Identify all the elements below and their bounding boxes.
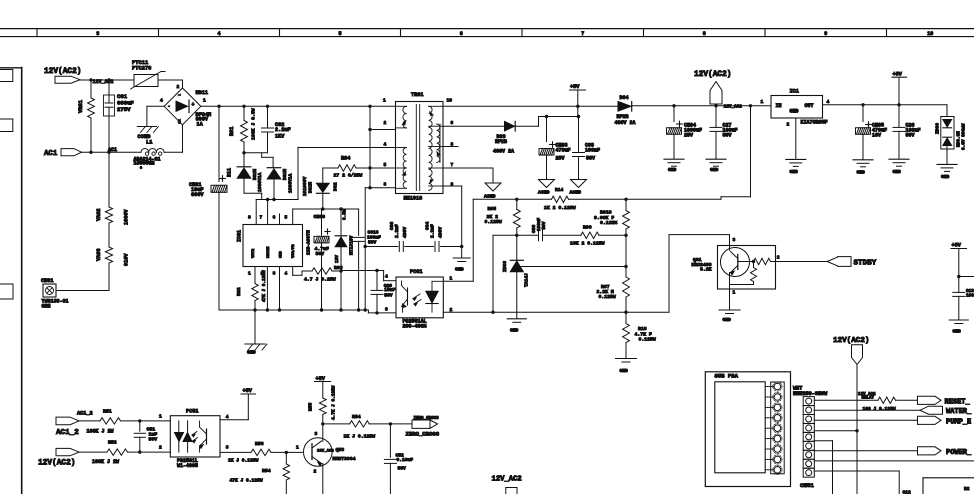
svg-text:VR01: VR01: [78, 100, 84, 113]
svg-text:D04: D04: [620, 95, 629, 101]
svg-text:DS1M: DS1M: [308, 182, 314, 193]
svg-text:50V: 50V: [368, 240, 377, 246]
svg-text:1600V: 1600V: [124, 209, 130, 225]
svg-text:2: 2: [314, 469, 317, 475]
svg-text:0.125W: 0.125W: [485, 219, 502, 225]
svg-text:1: 1: [450, 276, 453, 282]
svg-text:100nF: 100nF: [585, 148, 600, 154]
svg-text:470uF: 470uF: [556, 148, 571, 154]
svg-text:3: 3: [385, 307, 388, 313]
svg-text:6: 6: [273, 215, 276, 221]
svg-text:6.8V 800mW: 6.8V 800mW: [962, 123, 967, 150]
svg-text:2: 2: [159, 445, 162, 451]
svg-text:VA02: VA02: [96, 209, 102, 221]
svg-text:+5V: +5V: [243, 388, 253, 394]
svg-text:VA03: VA03: [96, 249, 102, 261]
svg-text:100 J 0.125W: 100 J 0.125W: [863, 406, 896, 412]
svg-text:8: 8: [248, 215, 251, 221]
svg-text:12V_AC2: 12V_AC2: [492, 476, 522, 484]
svg-text:9: 9: [451, 120, 454, 126]
svg-text:+5V: +5V: [952, 243, 962, 249]
svg-text:50V: 50V: [398, 466, 407, 472]
svg-text:AC1: AC1: [44, 150, 58, 158]
svg-text:C12: C12: [903, 490, 912, 494]
svg-text:2.2nF: 2.2nF: [430, 224, 436, 238]
svg-text:2: 2: [177, 84, 180, 90]
svg-text:GND: GND: [620, 368, 629, 374]
svg-text:5: 5: [285, 215, 288, 221]
svg-text:AGND: AGND: [484, 194, 496, 200]
svg-text:200-400%: 200-400%: [403, 324, 427, 330]
svg-text:0.16uF: 0.16uF: [397, 457, 414, 463]
svg-text:AC1_2: AC1_2: [77, 411, 93, 417]
svg-text:2: 2: [450, 307, 453, 313]
svg-text:10000uH: 10000uH: [134, 161, 155, 167]
svg-text:12V(AC2): 12V(AC2): [38, 460, 75, 468]
svg-text:12V_AC2: 12V_AC2: [93, 79, 114, 85]
svg-text:27 2 0/25W: 27 2 0/25W: [334, 173, 363, 179]
svg-text:47K J 0.125W: 47K J 0.125W: [262, 270, 267, 302]
svg-text:13V: 13V: [335, 255, 340, 263]
svg-text:DRAIN: DRAIN: [267, 246, 271, 258]
svg-text:AGND: AGND: [570, 190, 582, 196]
svg-text:R01: R01: [229, 127, 235, 136]
svg-text:GND: GND: [723, 317, 732, 323]
svg-text:R04: R04: [341, 156, 350, 162]
svg-text:GND: GND: [510, 328, 519, 334]
svg-text:TA14J: TA14J: [524, 273, 530, 287]
svg-text:1: 1: [159, 414, 162, 420]
svg-text:1: 1: [296, 445, 299, 451]
svg-text:600V: 600V: [191, 192, 204, 198]
svg-text:RESET_: RESET_: [945, 399, 971, 407]
svg-text:ZD03: ZD03: [502, 261, 508, 272]
svg-text:9: 9: [824, 31, 827, 37]
svg-text:GND: GND: [953, 329, 962, 335]
svg-text:Q53: Q53: [336, 447, 345, 453]
svg-text:9.09K F: 9.09K F: [594, 215, 614, 221]
svg-text:0.125W: 0.125W: [639, 337, 656, 343]
svg-text:3: 3: [384, 182, 387, 188]
svg-text:1: 1: [383, 98, 386, 104]
svg-text:100K J 2W: 100K J 2W: [87, 429, 114, 435]
svg-text:R55: R55: [308, 402, 314, 411]
svg-text:12V(AC2): 12V(AC2): [694, 71, 731, 79]
svg-text:0.5W: 0.5W: [343, 209, 348, 220]
svg-text:DS1M: DS1M: [282, 169, 288, 180]
svg-text:21B-A607M: 21B-A607M: [306, 230, 312, 255]
svg-text:R06: R06: [583, 225, 592, 231]
svg-text:D11: D11: [227, 168, 233, 177]
svg-text:SUB PBA: SUB PBA: [715, 373, 739, 380]
svg-text:AC1_2: AC1_2: [56, 429, 79, 437]
svg-text:R02: R02: [236, 287, 242, 296]
svg-text:50V: 50V: [723, 133, 732, 139]
svg-text:12V_AC2: 12V_AC2: [317, 450, 334, 454]
svg-text:~: ~: [178, 94, 181, 99]
svg-text:CN01: CN01: [41, 278, 53, 284]
svg-text:3: 3: [178, 119, 181, 125]
svg-text:L1: L1: [146, 140, 152, 146]
svg-text:400V 2A: 400V 2A: [615, 120, 636, 126]
svg-text:MMBT3904: MMBT3904: [333, 456, 356, 462]
svg-text:400V 2A: 400V 2A: [493, 149, 514, 155]
svg-text:50V: 50V: [542, 221, 547, 229]
svg-text:100K J 0.5W: 100K J 0.5W: [251, 108, 257, 140]
svg-text:1KV: 1KV: [275, 134, 285, 140]
svg-text:+5V: +5V: [570, 84, 580, 90]
svg-text:STDBY: STDBY: [854, 260, 877, 268]
svg-text:1: 1: [203, 98, 206, 104]
svg-text:4: 4: [226, 414, 229, 420]
svg-text:2: 2: [384, 120, 387, 126]
svg-text:3: 3: [315, 431, 318, 437]
svg-text:W1-4005: W1-4005: [177, 463, 198, 469]
svg-text:2A1000V: 2A1000V: [302, 176, 308, 196]
svg-text:2.2nF: 2.2nF: [394, 224, 400, 238]
svg-text:4.7 J 0.25W: 4.7 J 0.25W: [304, 277, 336, 283]
svg-text:50V: 50V: [149, 437, 158, 443]
svg-text:6: 6: [451, 182, 454, 188]
svg-text:1: 1: [761, 99, 764, 105]
svg-text:PTC278: PTC278: [132, 66, 151, 72]
svg-text:50V: 50V: [586, 156, 595, 162]
svg-text:GND: GND: [857, 170, 866, 176]
svg-text:CN51: CN51: [800, 482, 814, 489]
svg-text:GND: GND: [941, 174, 950, 180]
svg-text:7: 7: [260, 215, 263, 221]
svg-text:POWER_: POWER_: [946, 449, 972, 457]
svg-text:AGND: AGND: [538, 190, 550, 196]
svg-text:12V(AC2): 12V(AC2): [833, 337, 869, 345]
svg-text:25V: 25V: [684, 133, 693, 139]
svg-text:R53: R53: [255, 441, 264, 447]
svg-text:910V: 910V: [124, 253, 130, 266]
svg-text:GND: GND: [280, 250, 284, 258]
svg-text:4: 4: [385, 274, 388, 280]
svg-text:3: 3: [733, 237, 736, 243]
svg-text:7: 7: [451, 162, 454, 168]
svg-text:50V: 50V: [906, 133, 915, 139]
svg-text:GND: GND: [790, 169, 799, 175]
svg-text:RF2B: RF2B: [495, 139, 507, 145]
svg-text:KIA78R05F: KIA78R05F: [801, 120, 828, 126]
svg-text:1000V1A: 1000V1A: [257, 172, 263, 192]
svg-text:1: 1: [248, 271, 251, 277]
svg-text:6: 6: [460, 31, 463, 37]
svg-text:5: 5: [384, 162, 387, 168]
svg-text:275V: 275V: [117, 106, 131, 113]
svg-text:R2: R2: [964, 486, 970, 492]
svg-text:OUT: OUT: [805, 103, 814, 109]
svg-text:1: 1: [733, 290, 736, 296]
svg-text:12V_AC2: 12V_AC2: [724, 105, 743, 110]
svg-text:GRN: GRN: [42, 304, 51, 310]
svg-text:4: 4: [217, 31, 220, 37]
svg-text:IC01: IC01: [237, 230, 243, 242]
svg-text:10nF: 10nF: [384, 287, 395, 293]
svg-text:1K J 0.125W: 1K J 0.125W: [344, 434, 376, 440]
svg-text:1A: 1A: [197, 121, 204, 127]
svg-text:GND: GND: [790, 109, 799, 115]
svg-text:R18: R18: [638, 326, 647, 332]
svg-text:BD11: BD11: [196, 90, 208, 96]
svg-text:16V: 16V: [872, 133, 881, 139]
svg-text:PC51: PC51: [186, 409, 198, 415]
svg-text:IC1: IC1: [790, 89, 799, 95]
svg-text:1K J 0.125W: 1K J 0.125W: [228, 458, 259, 464]
svg-text:400V: 400V: [438, 227, 444, 238]
svg-text:2: 2: [777, 255, 780, 261]
svg-text:EE1916: EE1916: [404, 196, 423, 202]
svg-text:1K 2 0.125W: 1K 2 0.125W: [544, 205, 576, 211]
svg-text:5: 5: [338, 31, 341, 37]
svg-text:+5V: +5V: [893, 72, 903, 78]
svg-text:R05: R05: [488, 206, 497, 212]
svg-text:3: 3: [226, 445, 229, 451]
svg-text:1000V1A: 1000V1A: [288, 173, 294, 193]
svg-text:ENH250-0N0W: ENH250-0N0W: [793, 391, 828, 397]
svg-text:CE08: CE08: [314, 214, 326, 220]
svg-text:47K J 0.125W: 47K J 0.125W: [230, 478, 263, 484]
svg-text:4: 4: [384, 141, 387, 147]
svg-text:3: 3: [96, 31, 99, 37]
svg-text:ZD06: ZD06: [935, 123, 941, 134]
svg-text:8: 8: [703, 31, 706, 37]
svg-text:MTZJ13V: MTZJ13V: [349, 235, 355, 255]
svg-text:4: 4: [827, 99, 830, 105]
svg-text:4.7K J 0.125W: 4.7K J 0.125W: [332, 385, 337, 420]
svg-text:VSTR: VSTR: [252, 248, 256, 258]
svg-text:ZERO_CROSS: ZERO_CROSS: [406, 431, 440, 438]
svg-text:0.125%: 0.125%: [600, 220, 617, 226]
svg-text:R54: R54: [262, 468, 271, 474]
svg-text:2.2nF: 2.2nF: [275, 127, 291, 133]
svg-text:10K 2 0.125W: 10K 2 0.125W: [570, 241, 605, 247]
svg-text:0.125W: 0.125W: [599, 294, 616, 300]
svg-text:12V(AC2): 12V(AC2): [44, 68, 81, 76]
svg-text:GND: GND: [668, 167, 677, 173]
svg-text:25V: 25V: [556, 156, 565, 162]
svg-text:GND: GND: [247, 350, 256, 356]
svg-text:TR01: TR01: [411, 92, 423, 98]
svg-text:400V: 400V: [402, 227, 408, 238]
svg-text:GND: GND: [893, 169, 902, 175]
svg-text:10: 10: [927, 31, 933, 37]
svg-text:IN: IN: [776, 103, 782, 109]
svg-text:PUMP_E: PUMP_E: [946, 419, 971, 427]
svg-text:GND: GND: [710, 167, 719, 173]
svg-text:R52: R52: [108, 440, 117, 446]
svg-text:R14: R14: [555, 187, 564, 193]
svg-text:50V: 50V: [316, 251, 325, 257]
svg-text:PC01: PC01: [410, 269, 422, 275]
svg-text:VCC/FB: VCC/FB: [291, 244, 296, 258]
svg-text:GND: GND: [455, 267, 464, 273]
svg-text:R01S: R01S: [600, 210, 612, 216]
svg-text:ZERO_CROSS: ZERO_CROSS: [414, 417, 440, 421]
svg-text:R54: R54: [352, 414, 361, 420]
svg-text:100K J 2W: 100K J 2W: [92, 459, 119, 465]
svg-text:4: 4: [160, 98, 163, 104]
svg-text:R51: R51: [103, 409, 112, 415]
svg-text:-: -: [168, 104, 171, 110]
svg-text:3: 3: [273, 271, 276, 277]
svg-text:RELAY: RELAY: [862, 396, 875, 400]
svg-text:10: 10: [447, 98, 453, 104]
svg-text:100n: 100n: [966, 294, 974, 299]
svg-text:7: 7: [581, 31, 584, 37]
svg-text:+: +: [192, 102, 195, 108]
svg-text:4: 4: [285, 271, 288, 277]
svg-text:50V: 50V: [384, 293, 393, 299]
svg-text:8.2K: 8.2K: [700, 267, 712, 273]
svg-text:WATER_: WATER_: [946, 408, 972, 416]
svg-text:2: 2: [787, 122, 790, 128]
svg-text:D02: D02: [333, 182, 339, 191]
svg-text:*: *: [140, 167, 143, 173]
